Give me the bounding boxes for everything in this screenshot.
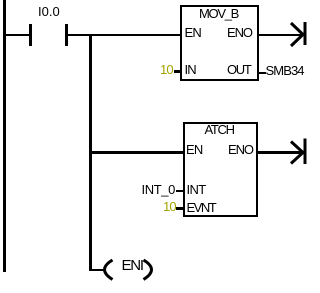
wire tick 10 to EVNT [176, 207, 184, 210]
arrow continuation 1 [287, 19, 309, 49]
pin INT label [187, 183, 206, 196]
contact I0.0 label [38, 5, 60, 18]
pin EN label [185, 26, 201, 39]
box MOV_B [180, 5, 259, 81]
wire branch vertical [89, 34, 92, 271]
value 10 for IN [160, 63, 173, 76]
wire ENO to arrow 2 [258, 151, 302, 154]
coil ENI left paren [102, 258, 116, 284]
box ATCH [183, 122, 259, 217]
coil ENI right paren [140, 258, 154, 284]
arrow continuation 2 [287, 137, 309, 167]
pin ENO label [228, 143, 253, 156]
wire contact to MOV_B EN [68, 34, 181, 37]
label MOV_B title [199, 7, 238, 20]
coil ENI label [122, 259, 143, 272]
pin EN label [186, 143, 202, 156]
value 10 for EVNT [163, 200, 176, 213]
pin ENO label [227, 26, 252, 39]
contact I0.0 right bar [65, 24, 68, 46]
wire branch to ENI coil [90, 269, 104, 272]
pin OUT label [227, 63, 251, 76]
pin EVNT label [187, 201, 216, 214]
operand INT_0 [142, 183, 175, 196]
contact I0.0 left bar [29, 24, 32, 46]
wire ENO to arrow [258, 34, 302, 37]
wire tick OUT to SMB34 [258, 72, 266, 75]
label SMB34 [266, 64, 304, 77]
wire tick INT_0 to INT [176, 190, 184, 193]
label ATCH title [205, 123, 234, 136]
left power rail [3, 0, 6, 272]
wire tick 10 to IN [174, 70, 181, 73]
wire rail to contact [6, 34, 29, 37]
pin IN label [185, 63, 196, 76]
wire branch to ATCH EN [91, 151, 183, 154]
